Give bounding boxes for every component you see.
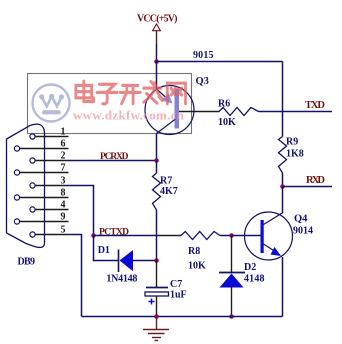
DB9 pin 6	[14, 138, 68, 151]
wire R7 down through PCTXD crossing to D1 node	[156, 210, 158, 261]
svg-text:3: 3	[61, 175, 66, 186]
diode D1 1N4148	[98, 245, 138, 285]
connector DB9 outline	[7, 124, 45, 247]
wire pin5 to ground rail	[69, 235, 82, 317]
wire R9 to RXD junction	[282, 173, 284, 187]
svg-text:R9: R9	[286, 137, 298, 148]
label 9014	[293, 226, 313, 237]
svg-text:2: 2	[61, 150, 66, 161]
label 9015 (Q3 part number)	[193, 50, 214, 61]
svg-text:10K: 10K	[188, 261, 206, 272]
svg-text:6: 6	[61, 138, 66, 149]
svg-text:9014: 9014	[293, 226, 313, 237]
svg-text:1uF: 1uF	[170, 290, 187, 301]
svg-text:R8: R8	[188, 246, 200, 257]
svg-text:9015: 9015	[193, 50, 214, 61]
DB9 pin 3	[30, 175, 69, 188]
ground	[143, 317, 169, 341]
net label PCRXD	[100, 152, 129, 162]
node PCRXD junction	[154, 158, 159, 163]
node D2 rail junction	[229, 314, 234, 319]
svg-text:1: 1	[61, 126, 66, 137]
capacitor C7 1uF	[145, 279, 187, 305]
power symbol VCC(+5V)	[137, 14, 178, 45]
chinese text kai	[120, 85, 140, 103]
wire VCC vertical to junction	[156, 44, 158, 62]
wire R8 to Q4 base junction	[220, 235, 232, 237]
wire PCTXD junction to crossing	[94, 235, 157, 237]
chinese text fa	[144, 82, 163, 104]
svg-text:4148: 4148	[244, 274, 265, 285]
net label TXD	[305, 100, 325, 111]
wire D2 vertical top	[231, 236, 233, 273]
wire PCRXD pin2 to R7 node	[69, 160, 157, 162]
resistor R9 1K8	[279, 137, 304, 174]
net label RXD	[306, 175, 325, 186]
svg-text:www.dzkfw.com.cn: www.dzkfw.com.cn	[73, 107, 185, 122]
svg-text:TXD: TXD	[305, 100, 325, 111]
svg-text:R6: R6	[218, 99, 230, 110]
label Q3	[196, 76, 209, 87]
chinese text zi	[97, 84, 117, 104]
wire Q4 collector up to RXD junction	[282, 187, 284, 214]
svg-text:4: 4	[61, 199, 66, 210]
svg-text:1K8: 1K8	[286, 149, 304, 160]
net label PCTXD	[99, 228, 129, 238]
wire PCTXD crossing to R8	[157, 235, 182, 237]
svg-text:D2: D2	[244, 262, 256, 273]
DB9 pin 5	[30, 224, 69, 237]
node PCTXD junction	[91, 233, 96, 238]
svg-text:D1: D1	[98, 245, 110, 256]
svg-text:RXD: RXD	[306, 175, 325, 186]
transistor Q3 PNP 9015	[145, 86, 194, 135]
DB9 pin 7	[14, 162, 68, 175]
wire D2 to rail	[231, 288, 233, 317]
svg-text:PCRXD: PCRXD	[100, 152, 129, 162]
node Q4 base junction	[229, 233, 234, 238]
wire C7 node down	[156, 261, 158, 288]
DB9 pin 8	[14, 187, 68, 200]
svg-text:1N4148: 1N4148	[106, 274, 137, 285]
wire Q4 emitter down to rail	[282, 257, 284, 317]
svg-text:7: 7	[61, 162, 66, 173]
DB9 pin 4	[30, 199, 69, 212]
wire right bus VCC down to R9	[282, 62, 284, 137]
wire pin3 to corner	[69, 186, 94, 236]
svg-text:VCC(+5V): VCC(+5V)	[137, 14, 178, 25]
DB9 pin 9	[14, 211, 68, 224]
wire ground rail	[82, 316, 283, 318]
svg-text:10K: 10K	[218, 117, 236, 128]
label DB9	[18, 257, 36, 268]
label Q4	[294, 214, 308, 225]
wire PCRXD junction to R7	[156, 161, 158, 174]
svg-text:9: 9	[61, 211, 66, 222]
chinese text dian	[76, 81, 94, 102]
chinese text wang	[167, 83, 185, 104]
wire Q3 base to R6	[179, 111, 219, 113]
wire junction to Q4 base	[232, 235, 261, 237]
svg-text:Q3: Q3	[196, 76, 209, 87]
svg-text:8: 8	[61, 187, 66, 198]
svg-text:Q4: Q4	[294, 214, 308, 225]
node ground junction	[154, 314, 159, 319]
svg-text:4K7: 4K7	[160, 186, 178, 197]
resistor R7 4K7	[153, 173, 178, 210]
wire PCTXD junction down to D1	[94, 236, 119, 261]
selection box around Q3	[28, 74, 192, 134]
wire Q3 emitter from VCC junction down	[156, 62, 158, 90]
wire D1 to C7 node	[133, 260, 157, 262]
svg-text:C7: C7	[170, 279, 182, 290]
watermark logo circle W	[33, 85, 70, 122]
wire RXD	[283, 186, 333, 188]
svg-text:DB9: DB9	[18, 257, 36, 268]
wire Q3 collector down to PCRXD junction	[156, 134, 158, 161]
DB9 pin 2	[30, 150, 69, 163]
DB9 pin 1	[30, 126, 69, 139]
node D1/R7/C7 junction	[154, 258, 159, 263]
svg-text:R7: R7	[160, 176, 172, 187]
svg-text:5: 5	[61, 224, 66, 235]
node VCC junction	[154, 59, 159, 64]
resistor R6 10K	[218, 99, 259, 129]
wire R6 to TXD	[259, 111, 333, 113]
diode D2 4148	[219, 262, 265, 288]
resistor R8 10K	[181, 232, 220, 272]
watermark	[33, 81, 186, 122]
wire C7 to rail	[156, 296, 158, 317]
node RXD junction	[280, 184, 285, 189]
transistor Q4 NPN 9014	[245, 212, 293, 260]
wire VCC horizontal to right bus	[157, 61, 283, 63]
